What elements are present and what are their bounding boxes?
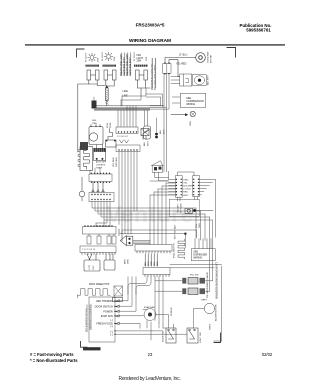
- bus wire y233 with drop: [120, 234, 185, 248]
- vertical text bottom: [175, 224, 177, 239]
- svg-text:Rendered by LeadVenture, Inc.: Rendered by LeadVenture, Inc.: [119, 376, 181, 382]
- svg-text:GREY: GREY: [201, 300, 208, 302]
- wires out of right connector to bus: [200, 179, 216, 237]
- svg-text:FRS23W3A*5: FRS23W3A*5: [136, 23, 165, 28]
- svg-text:YEL-RED: YEL-RED: [176, 63, 187, 66]
- circle component left: [79, 177, 85, 201]
- ground G1: [171, 111, 196, 126]
- text below D1: [96, 161, 107, 170]
- svg-text:WIRING: WIRING: [186, 103, 195, 106]
- header rule: [25, 44, 285, 45]
- wire corners up to lamp circuit: [146, 94, 163, 107]
- zigzag box: [78, 147, 93, 171]
- svg-text:BRN: BRN: [125, 259, 127, 264]
- relay box RB1: [84, 254, 100, 271]
- svg-text:EVAP FAN: EVAP FAN: [144, 306, 155, 309]
- vertical text bars (wire list): [152, 59, 155, 89]
- wires lamp area to mid connectors: [118, 88, 148, 127]
- svg-text:LIGHT: LIGHT: [137, 58, 144, 60]
- svg-text:BLK-WHT: BLK-WHT: [208, 74, 210, 85]
- svg-text:DEF: DEF: [92, 120, 97, 122]
- svg-text:1 2 3 4 5 6 7: 1 2 3 4 5 6 7: [117, 136, 129, 138]
- wires below CN7: [128, 277, 163, 325]
- svg-text:GRN: GRN: [190, 121, 192, 126]
- wide connector CN5b: [80, 246, 116, 255]
- connector CN3: [89, 168, 112, 183]
- main connector CN8: [163, 62, 171, 74]
- corner bracket bottom-left: [81, 342, 88, 348]
- see dispenser box: [191, 239, 215, 261]
- compressor relay box: [180, 74, 192, 86]
- svg-text:ORG: ORG: [128, 259, 130, 264]
- vertical text mid: [113, 157, 118, 167]
- svg-text:BLK-WHT: BLK-WHT: [183, 186, 194, 188]
- svg-text:25W: 25W: [146, 57, 148, 61]
- svg-text:LIGHT 40W SPST: LIGHT 40W SPST: [130, 57, 132, 76]
- wires CN8 top to fan: [165, 58, 196, 77]
- condenser fan motor M1: [196, 51, 213, 63]
- svg-text:LIGHT SW: LIGHT SW: [200, 332, 202, 343]
- harness connector left: [175, 176, 182, 201]
- svg-text:1 3 5 7 9 11 13: 1 3 5 7 9 11 13: [82, 249, 96, 251]
- svg-text:GREY: GREY: [210, 323, 212, 330]
- svg-text:WHT: WHT: [148, 260, 150, 266]
- svg-text:DEF THERMO: DEF THERMO: [96, 300, 113, 303]
- svg-text:LINE: LINE: [123, 90, 129, 93]
- svg-text:RED: RED: [183, 192, 188, 194]
- svg-text:YEL-RED: YEL-RED: [113, 157, 115, 167]
- wire pair above bus: [97, 106, 163, 108]
- svg-text:WHT: WHT: [148, 140, 150, 146]
- timer label: [92, 120, 97, 125]
- svg-text:MOTOR: MOTOR: [211, 54, 213, 63]
- compressor overload: [192, 74, 209, 85]
- svg-text:EVAP FAN: EVAP FAN: [101, 315, 113, 318]
- small box below heater end: [113, 298, 123, 302]
- relay box dark: [80, 142, 88, 150]
- svg-text:RLY: RLY: [93, 265, 95, 270]
- svg-text:PURPLE: PURPLE: [171, 307, 173, 316]
- LINE labels: [123, 90, 129, 98]
- pin groups below CN5: [87, 234, 116, 244]
- svg-text:* = Non-Illustrated Parts: * = Non-Illustrated Parts: [30, 358, 78, 363]
- svg-text:COND FAN: COND FAN: [207, 51, 210, 63]
- svg-text:# = Fast-moving Parts: # = Fast-moving Parts: [30, 352, 74, 357]
- bottom wires: [143, 266, 222, 341]
- svg-text:LT. BLU: LT. BLU: [179, 54, 188, 57]
- evap fan motor: [144, 306, 156, 321]
- svg-text:25W: 25W: [114, 57, 116, 61]
- svg-text:FZ LIGHT: FZ LIGHT: [134, 51, 136, 61]
- svg-text:WHT-VIO BLK: WHT-VIO BLK: [175, 224, 177, 239]
- corner bracket bottom-right: [214, 333, 221, 343]
- lamp L1 bulb: [88, 53, 96, 61]
- svg-text:WIRING: WIRING: [193, 257, 202, 260]
- svg-text:(-): (-): [110, 334, 113, 337]
- auger motor: [204, 303, 217, 330]
- svg-text:FRESH FOOD LIGHT: FRESH FOOD LIGHT: [127, 53, 129, 76]
- corner bracket top-left: [77, 49, 85, 57]
- svg-text:YEL: YEL: [183, 182, 188, 184]
- connector stub right: [141, 129, 149, 140]
- wires to dispenser column: [170, 265, 222, 268]
- connector strip CN1: [116, 127, 138, 143]
- svg-text:WHT-BLK: WHT-BLK: [181, 203, 183, 213]
- svg-text:ORG: ORG: [199, 223, 201, 228]
- svg-text:ICE VALVE: ICE VALVE: [206, 286, 209, 298]
- horizontal bus right of CN5: [133, 241, 150, 244]
- fuse F1 vertical element: [105, 85, 108, 105]
- connector CN7: [143, 268, 170, 277]
- wires CN8 down: [150, 74, 180, 172]
- solenoid S1: [185, 208, 213, 213]
- svg-text:(-): (-): [110, 325, 113, 328]
- control board box: [89, 297, 115, 342]
- defrost heater element: [78, 289, 111, 298]
- board bottom wires: [114, 330, 187, 335]
- svg-text:FF LIGHT: FF LIGHT: [102, 51, 104, 61]
- svg-text:CONTROL: CONTROL: [96, 165, 107, 167]
- lamp L3 bulb: [137, 55, 144, 63]
- ADC box: [172, 93, 205, 107]
- svg-text:FUSE: FUSE: [110, 122, 112, 128]
- svg-text:FILL SW: FILL SW: [190, 274, 199, 276]
- svg-text:25W: 25W: [98, 58, 100, 62]
- water valve 1: [182, 271, 209, 287]
- svg-text:WHT: WHT: [183, 195, 189, 197]
- svg-text:WATER VALVE: WATER VALVE: [206, 271, 209, 287]
- svg-text:ORG: ORG: [183, 179, 188, 181]
- lamp side labels: [86, 51, 149, 62]
- board left text bars: [87, 305, 91, 331]
- svg-text:RED: RED: [157, 261, 159, 266]
- svg-text:POWER: POWER: [103, 310, 113, 313]
- lamp L2 socket: [103, 65, 117, 84]
- svg-text:YEL: YEL: [196, 223, 198, 228]
- svg-text:5995366761: 5995366761: [246, 28, 271, 33]
- svg-text:FRESH FOOD LIGHT: FRESH FOOD LIGHT: [121, 53, 123, 76]
- svg-text:VIO-WHT: VIO-WHT: [178, 203, 180, 213]
- step component: [106, 122, 117, 147]
- svg-text:LIGHT 40W SPST: LIGHT 40W SPST: [124, 57, 126, 76]
- wires to valves: [155, 281, 213, 291]
- svg-text:415A: 415A: [106, 123, 109, 128]
- connector strip CN2: [116, 145, 140, 152]
- svg-text:DOOR SWITCH: DOOR SWITCH: [95, 305, 113, 308]
- svg-text:MULLION HTR: MULLION HTR: [174, 243, 176, 258]
- wire bundle down to harness: [164, 106, 167, 172]
- hatched block B: [92, 97, 97, 109]
- svg-text:02/02: 02/02: [262, 352, 273, 357]
- text between connectors: [183, 179, 194, 197]
- corner bracket top-right: [227, 48, 236, 58]
- vertical text col top-mid: [151, 63, 157, 90]
- svg-text:FZR: FZR: [137, 55, 142, 57]
- svg-text:TIMER: TIMER: [96, 168, 103, 170]
- right connector CN6: [135, 245, 172, 254]
- wire bus below CN4: [92, 202, 213, 292]
- vertical text left of S1: [178, 203, 183, 213]
- diagonal wires right of CN5: [119, 229, 133, 246]
- bus wire y230: [122, 230, 197, 238]
- door switch SW1: [163, 328, 177, 343]
- svg-text:23: 23: [148, 352, 153, 357]
- defrost timer: [89, 125, 103, 145]
- lamp L1 socket: [86, 65, 100, 84]
- small rounded component left of banana: [144, 126, 151, 139]
- svg-text:ORG-BLK: ORG-BLK: [116, 157, 118, 167]
- power plug P1: [151, 161, 163, 173]
- big connector CN5: [83, 225, 117, 234]
- svg-text:FRSF FREEZ HTR: FRSF FREEZ HTR: [89, 283, 110, 286]
- svg-text:BLK: BLK: [160, 129, 162, 134]
- mounted-on text bar: [216, 267, 218, 298]
- gray bus bar: [94, 108, 150, 111]
- water valve 2: [182, 286, 209, 298]
- lamp label text bars: [122, 53, 131, 75]
- harness connector right: [193, 176, 200, 200]
- svg-text:ORG: ORG: [151, 261, 153, 266]
- svg-text:AUTO DEF: AUTO DEF: [96, 161, 107, 164]
- wires CN2 down: [119, 152, 137, 235]
- board pin stubs: [114, 300, 119, 325]
- relay box RB2: [104, 254, 115, 270]
- wires from plug down: [150, 172, 169, 181]
- heater end box: [114, 286, 123, 296]
- vertical text col mid: [125, 259, 130, 264]
- svg-text:FF LIGHT: FF LIGHT: [86, 52, 88, 62]
- svg-text:TMR: TMR: [92, 123, 97, 125]
- vertical heater element: [174, 239, 185, 259]
- board left vertical text: [86, 303, 93, 332]
- svg-text:HTR: HTR: [89, 265, 91, 270]
- CN6 wire color label bars: [145, 254, 157, 266]
- lamp L3 socket: [134, 65, 148, 84]
- wires from board to right: [120, 277, 144, 329]
- vertical text right of CN1: [144, 140, 150, 146]
- lamp L2 bulb: [104, 52, 112, 60]
- connector CN4: [89, 193, 114, 202]
- door switch SW2: [187, 328, 202, 343]
- dark label strip: [83, 347, 101, 350]
- svg-text:LT. BLU: LT. BLU: [183, 189, 191, 191]
- svg-text:BLK: BLK: [145, 261, 147, 266]
- wire labels right bus: [196, 223, 201, 228]
- wire lamp bus: [78, 84, 150, 152]
- wires into left connector: [150, 171, 194, 244]
- svg-text:AUGER MOTOR: AUGER MOTOR: [215, 304, 218, 321]
- stubs below CN3: [92, 182, 104, 192]
- banana plug pair: [155, 118, 165, 138]
- svg-text:BLK: BLK: [144, 141, 146, 146]
- svg-text:WIRING DIAGRAM: WIRING DIAGRAM: [129, 38, 171, 44]
- dark connector D1: [94, 145, 106, 161]
- svg-text:DOOR SW: DOOR SW: [163, 330, 165, 342]
- icemaker box: [169, 199, 199, 216]
- svg-text:25W: 25W: [137, 61, 143, 63]
